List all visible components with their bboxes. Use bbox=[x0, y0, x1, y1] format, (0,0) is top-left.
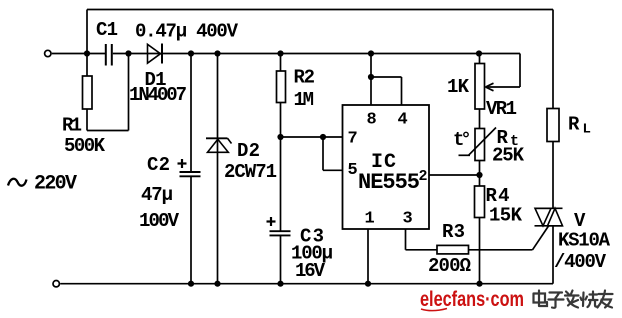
label V bbox=[574, 210, 586, 232]
resistor R2 bbox=[277, 54, 286, 138]
svg-text:1: 1 bbox=[365, 210, 375, 229]
svg-text:R3: R3 bbox=[442, 221, 465, 243]
value 47u bbox=[141, 184, 173, 206]
svg-text:47μ: 47μ bbox=[141, 184, 173, 206]
wire: D1 to wiper corner bbox=[163, 53, 520, 55]
wire: terminal to C1 bbox=[52, 53, 105, 55]
resistor R1 bbox=[83, 54, 129, 131]
svg-text:16V: 16V bbox=[295, 260, 326, 282]
wire: supply to pins 8 and 4 bbox=[371, 54, 402, 106]
node C2 bottom bbox=[188, 281, 194, 287]
terminal top-left bbox=[45, 50, 51, 56]
node C3 bottom bbox=[277, 281, 283, 287]
capacitor C1 bbox=[106, 44, 112, 66]
label Rt bbox=[497, 127, 520, 150]
svg-text:3: 3 bbox=[403, 210, 413, 229]
node pin8 bbox=[368, 74, 374, 80]
label C1 bbox=[96, 19, 118, 41]
thermistor Rt bbox=[459, 128, 497, 176]
diode D1 bbox=[148, 44, 163, 64]
value 100V bbox=[139, 210, 180, 232]
node D2 bottom bbox=[214, 281, 220, 287]
label IC bbox=[371, 151, 396, 174]
label R1 bbox=[62, 115, 82, 137]
svg-text:R2: R2 bbox=[294, 67, 316, 89]
value KS10A bbox=[558, 230, 611, 252]
svg-text:L: L bbox=[583, 122, 591, 138]
svg-text:R1: R1 bbox=[62, 115, 82, 137]
wire: right rail upper bbox=[552, 10, 554, 109]
wire: C1 to D1 bbox=[113, 53, 161, 55]
wire: pin2 to divider bbox=[429, 174, 480, 176]
wire: RL to triac bbox=[552, 142, 554, 209]
svg-text:25K: 25K bbox=[492, 145, 525, 167]
node VR1 top bbox=[476, 50, 482, 56]
svg-text:1N4007: 1N4007 bbox=[129, 84, 187, 106]
pin 5 bbox=[348, 161, 358, 180]
pin 2 label bbox=[419, 168, 428, 185]
AC source label bbox=[8, 173, 77, 196]
svg-text:0.47μ 400V: 0.47μ 400V bbox=[135, 21, 239, 43]
triac V bbox=[535, 208, 563, 283]
resistor RL bbox=[547, 109, 559, 142]
svg-text:1K: 1K bbox=[447, 76, 470, 98]
label 1K bbox=[447, 76, 470, 98]
label VR1 bbox=[486, 98, 517, 120]
wire: pin1 to ground rail bbox=[367, 229, 369, 284]
node B (junction after C1) bbox=[125, 50, 131, 56]
wire: gate diagonal bbox=[533, 226, 549, 250]
zener diode D2 bbox=[206, 54, 232, 284]
svg-text:5: 5 bbox=[348, 161, 358, 180]
svg-text:100V: 100V bbox=[139, 210, 180, 232]
svg-text:VR1: VR1 bbox=[486, 98, 517, 120]
value 15K bbox=[489, 205, 523, 227]
svg-text:R: R bbox=[568, 114, 580, 136]
op-amp U1 (IC NE555 box) bbox=[343, 105, 430, 229]
label R3 bbox=[442, 221, 465, 243]
wire: top rail riser bbox=[86, 10, 88, 54]
value 2CW71 bbox=[224, 161, 277, 183]
svg-text:2CW71: 2CW71 bbox=[224, 161, 277, 183]
svg-text:t: t bbox=[453, 129, 464, 151]
value 16V bbox=[295, 260, 326, 282]
svg-text:2: 2 bbox=[419, 168, 428, 185]
pin 7 bbox=[348, 130, 358, 149]
node D2 top bbox=[214, 50, 220, 56]
wire: node to pin7 bbox=[281, 136, 343, 138]
svg-text:NE555: NE555 bbox=[358, 170, 420, 195]
capacitor C3 bbox=[267, 137, 291, 284]
node C2 top bbox=[188, 50, 194, 56]
svg-text:C1: C1 bbox=[96, 19, 118, 41]
wire: bottom rail bbox=[60, 283, 553, 285]
node pin1 bottom bbox=[365, 281, 371, 287]
value 1M bbox=[294, 89, 315, 111]
wire: top rail bbox=[87, 9, 553, 11]
svg-text:200Ω: 200Ω bbox=[428, 255, 471, 277]
wire: VR1 to Rt bbox=[479, 109, 481, 129]
pin 1 bbox=[365, 210, 375, 229]
label t deg bbox=[453, 129, 468, 151]
resistor R4 bbox=[475, 175, 485, 284]
label D2 bbox=[237, 140, 260, 162]
value /400V bbox=[554, 251, 607, 273]
label NE555 bbox=[358, 170, 420, 195]
terminal bottom-left bbox=[53, 281, 59, 287]
wire: pin5 branch bbox=[323, 137, 343, 170]
svg-text:/400V: /400V bbox=[554, 251, 607, 273]
pin 4 bbox=[398, 111, 408, 130]
value 25K bbox=[492, 145, 525, 167]
watermark elecfans.com bbox=[420, 288, 524, 311]
value 200ohm bbox=[428, 255, 471, 277]
svg-text:elecfans·com: elecfans·com bbox=[420, 288, 524, 311]
node pins 7-5 bbox=[277, 134, 326, 140]
potentiometer VR1 bbox=[475, 54, 520, 110]
svg-text:500K: 500K bbox=[64, 135, 106, 157]
label D1 bbox=[145, 69, 167, 91]
svg-text:15K: 15K bbox=[489, 205, 523, 227]
capacitor C2 bbox=[178, 54, 201, 284]
svg-text:4: 4 bbox=[398, 111, 408, 130]
wire: pin3 down bbox=[406, 229, 438, 250]
node R4 bottom bbox=[476, 281, 482, 287]
label R2 bbox=[294, 67, 316, 89]
label RL bbox=[568, 114, 591, 138]
svg-text:8: 8 bbox=[367, 111, 377, 130]
label C2 bbox=[147, 154, 170, 176]
node R2 top bbox=[277, 50, 283, 56]
value 500K bbox=[64, 135, 106, 157]
node A (junction left) bbox=[84, 50, 90, 56]
pin 3 bbox=[403, 210, 413, 229]
pin 8 bbox=[367, 111, 377, 130]
node divider mid bbox=[476, 172, 482, 178]
resistor R3 bbox=[437, 245, 533, 254]
value label 0.47u 400V bbox=[135, 21, 239, 43]
svg-text:C2: C2 bbox=[147, 154, 170, 176]
watermark chinese characters bbox=[534, 291, 613, 308]
svg-text:220V: 220V bbox=[34, 173, 77, 196]
svg-text:7: 7 bbox=[348, 130, 358, 149]
value 1N4007 bbox=[129, 84, 187, 106]
svg-text:D2: D2 bbox=[237, 140, 260, 162]
svg-text:KS10A: KS10A bbox=[558, 230, 611, 252]
svg-text:1M: 1M bbox=[294, 89, 315, 111]
value 100u bbox=[291, 243, 333, 265]
label R4 bbox=[486, 185, 510, 207]
label C3 bbox=[300, 226, 324, 248]
node IC supply bbox=[368, 50, 374, 56]
